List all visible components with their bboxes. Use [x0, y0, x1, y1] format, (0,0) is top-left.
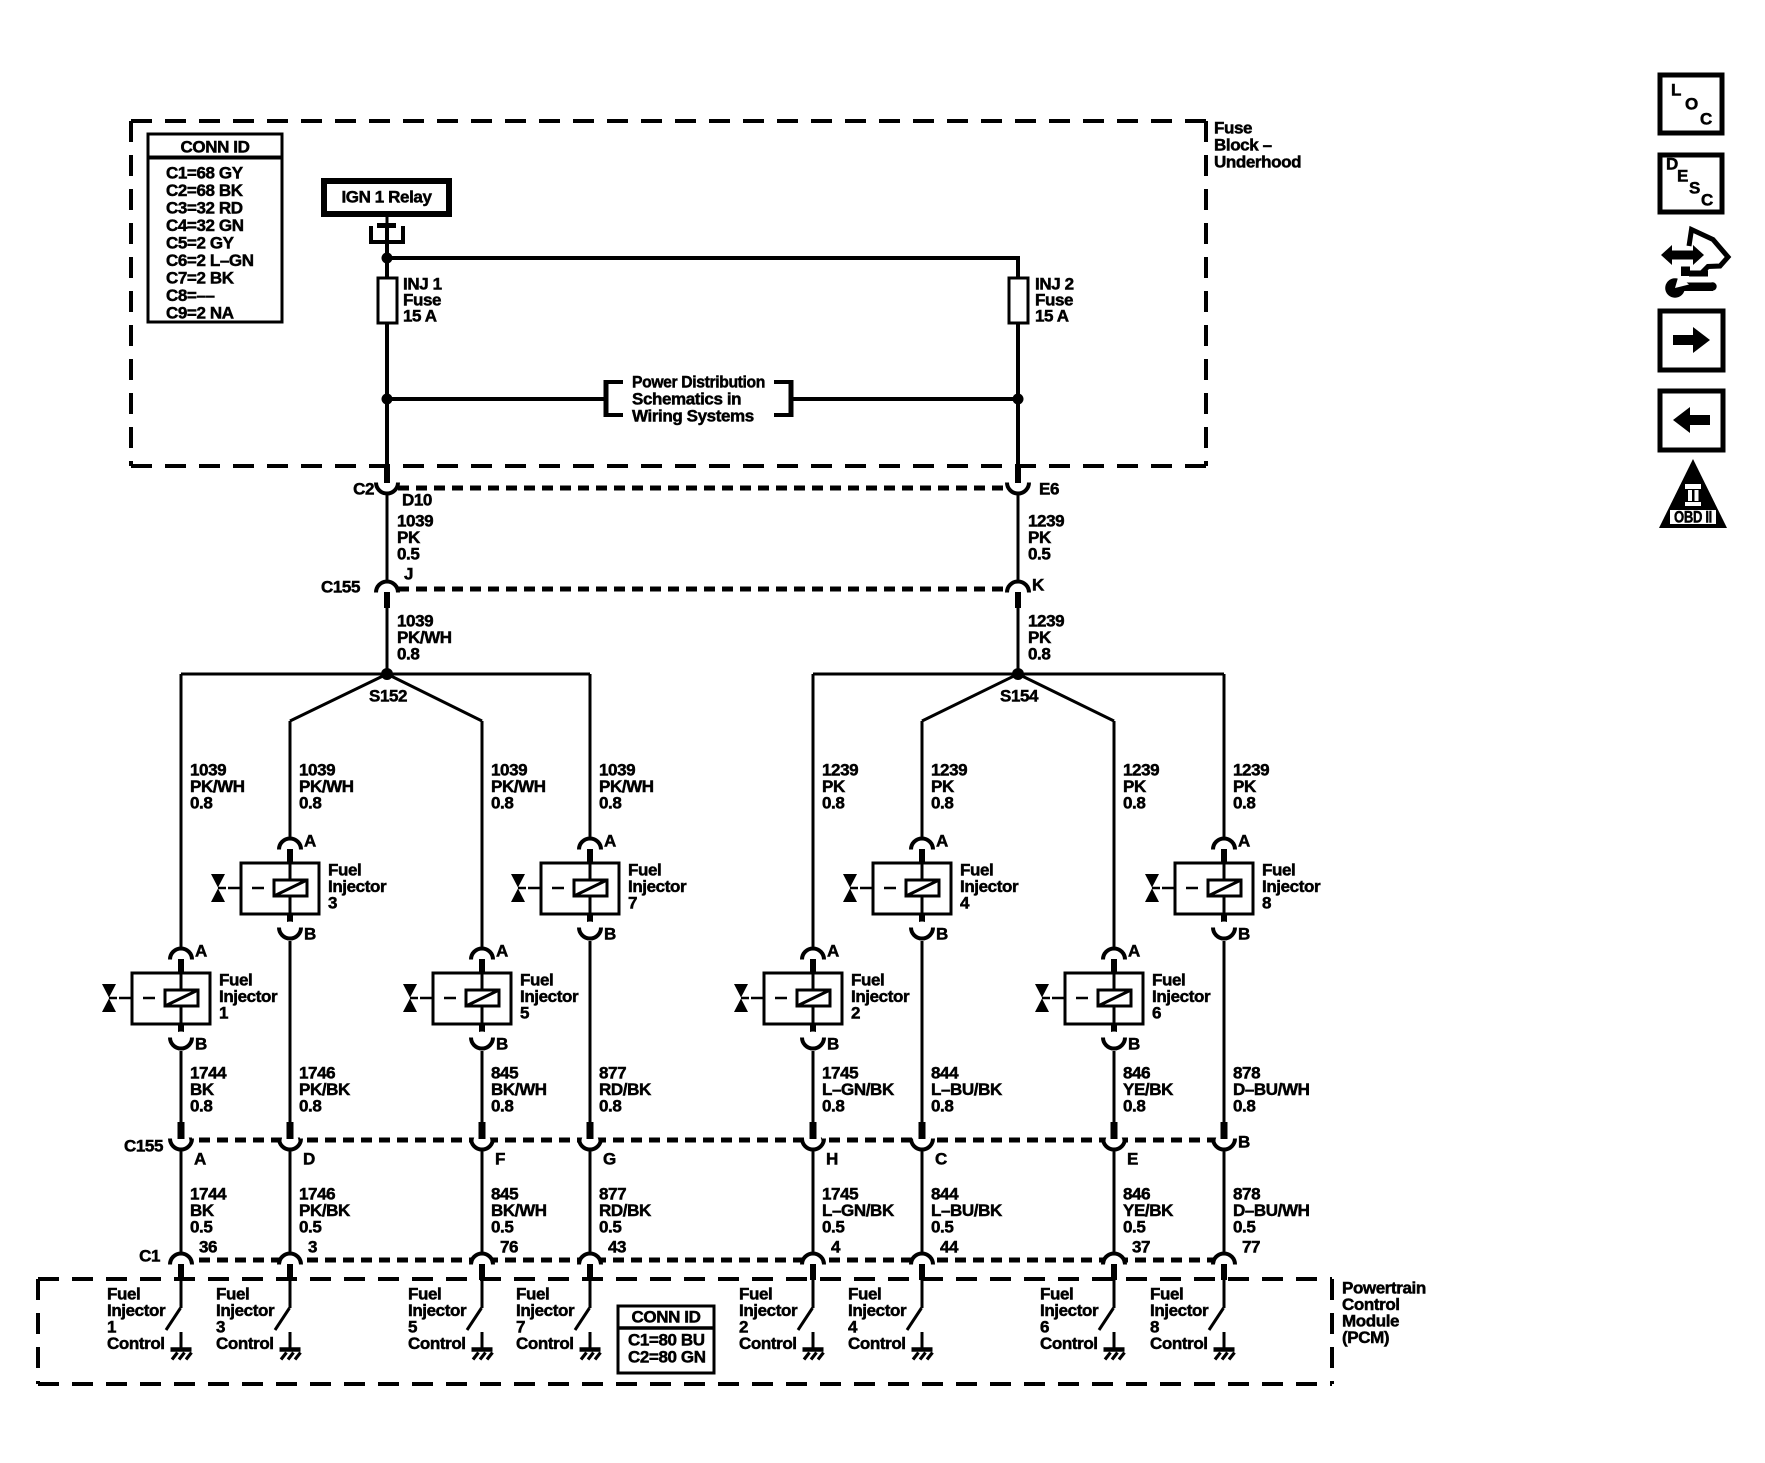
svg-text:0.5: 0.5	[397, 545, 419, 564]
junction dot left power distribution tap	[382, 394, 393, 405]
power distribution schematics reference	[606, 373, 791, 426]
fuel injector 8	[1145, 832, 1321, 944]
connector row C155 J / K dotted line	[398, 587, 1007, 592]
svg-text:B: B	[1238, 925, 1250, 944]
svg-text:CONN ID: CONN ID	[181, 138, 250, 157]
wire S154 branch to injector 4	[921, 721, 924, 838]
forward arrow icon box	[1660, 311, 1723, 370]
svg-text:E: E	[1677, 167, 1688, 186]
wire label 846 0.5	[1123, 1185, 1174, 1237]
svg-text:C155: C155	[124, 1137, 163, 1156]
wire label 1239 PK 0.5	[1028, 512, 1064, 564]
svg-text:B: B	[304, 925, 316, 944]
connector C155 pin F	[471, 1122, 505, 1169]
svg-text:F: F	[495, 1150, 505, 1169]
PCM label	[1342, 1279, 1426, 1348]
relay K1 IGN 1 Relay	[324, 181, 449, 214]
wire label 1239 PK 0.8	[1028, 612, 1064, 664]
fuel injector 7	[511, 832, 687, 944]
relay pin terminal symbol	[369, 216, 405, 242]
wire label 1239 PK 0.8	[822, 761, 858, 813]
svg-text:0.5: 0.5	[822, 1218, 844, 1237]
svg-text:Control: Control	[408, 1334, 466, 1353]
svg-text:S152: S152	[369, 687, 407, 706]
svg-text:0.8: 0.8	[299, 794, 321, 813]
svg-text:B: B	[1238, 1133, 1250, 1152]
svg-text:0.8: 0.8	[1123, 794, 1145, 813]
wire label 878 0.5	[1233, 1185, 1310, 1237]
svg-text:C1=68 GY: C1=68 GY	[166, 164, 244, 183]
svg-text:Control: Control	[739, 1334, 797, 1353]
wire S152 branch to injector 1	[180, 674, 183, 948]
svg-text:A: A	[1238, 832, 1250, 851]
connector C155 pin D	[279, 1122, 315, 1169]
back arrow icon box	[1660, 391, 1723, 450]
svg-text:0.8: 0.8	[397, 645, 419, 664]
connector C155 pin K	[1007, 576, 1045, 609]
svg-text:Wiring Systems: Wiring Systems	[632, 407, 754, 426]
wire label 1039 PK/WH 0.8	[599, 761, 654, 813]
wire C155 G to C1	[589, 1151, 592, 1252]
svg-text:Control: Control	[516, 1334, 574, 1353]
svg-text:A: A	[827, 942, 839, 961]
svg-text:Control: Control	[107, 1334, 165, 1353]
wire injector 8 to C155	[1223, 941, 1226, 1124]
svg-text:D: D	[303, 1150, 315, 1169]
svg-text:A: A	[496, 942, 508, 961]
CONN ID table (fuse block)	[148, 134, 282, 323]
PCM driver fuel injector 2 control	[739, 1280, 824, 1360]
wire S152 branch to injector 7	[589, 674, 592, 838]
svg-text:0.8: 0.8	[491, 1097, 513, 1116]
PCM driver fuel injector 3 control	[216, 1280, 301, 1360]
wire from power distribution bracket right	[791, 397, 1018, 401]
svg-text:Control: Control	[1040, 1334, 1098, 1353]
connector C1 pin 4	[802, 1238, 841, 1281]
wire injector 3 to C155	[289, 941, 292, 1124]
connector C2	[353, 468, 398, 499]
wire S152 branch to injector 3	[289, 721, 292, 838]
svg-text:43: 43	[608, 1238, 626, 1257]
PCM driver fuel injector 8 control	[1150, 1280, 1235, 1360]
svg-text:0.5: 0.5	[1233, 1218, 1255, 1237]
wire label 877 0.5	[599, 1185, 652, 1237]
svg-text:1: 1	[219, 1004, 228, 1023]
LOC icon box	[1660, 75, 1722, 133]
connector C1 pin 37	[1103, 1238, 1150, 1281]
wire label 1744 0.8	[190, 1064, 227, 1116]
OBD II icon triangle	[1659, 459, 1727, 528]
svg-text:44: 44	[940, 1238, 959, 1257]
fuse block label	[1214, 119, 1301, 172]
svg-text:3: 3	[308, 1238, 317, 1257]
wire S154 branch to injector 2	[812, 674, 815, 948]
wire C155 C to C1	[921, 1151, 924, 1252]
svg-text:B: B	[195, 1035, 207, 1054]
svg-text:D10: D10	[402, 491, 432, 510]
wire C155 F to C1	[481, 1151, 484, 1252]
svg-text:C5=2 GY: C5=2 GY	[166, 234, 235, 253]
svg-text:C6=2 L–GN: C6=2 L–GN	[166, 251, 254, 270]
svg-text:C1: C1	[139, 1247, 160, 1266]
svg-text:36: 36	[199, 1238, 217, 1257]
wire to power distribution bracket left	[387, 397, 606, 401]
svg-text:Underhood: Underhood	[1214, 153, 1301, 172]
svg-text:E6: E6	[1039, 480, 1059, 499]
svg-text:S: S	[1689, 179, 1700, 198]
svg-text:E: E	[1127, 1150, 1138, 1169]
wire S154 branch to injector 6	[1113, 721, 1116, 948]
wire INJ1 fuse top lead	[385, 258, 389, 278]
svg-text:4: 4	[831, 1238, 841, 1257]
wire label 1744 0.5	[190, 1185, 227, 1237]
svg-text:C: C	[1700, 110, 1712, 129]
svg-text:H: H	[826, 1150, 838, 1169]
wire label 877 0.8	[599, 1064, 652, 1116]
PCM driver fuel injector 5 control	[408, 1280, 493, 1360]
svg-text:0.5: 0.5	[491, 1218, 513, 1237]
wire S152 branch to injector 5	[481, 721, 484, 948]
connector row C155 dotted line	[181, 1138, 1224, 1143]
wire INJ2 fuse top lead	[1016, 256, 1020, 278]
svg-text:0.8: 0.8	[822, 794, 844, 813]
CONN ID table (PCM)	[618, 1306, 714, 1373]
junction dot right power distribution tap	[1013, 394, 1024, 405]
svg-text:B: B	[936, 925, 948, 944]
wire injector 1 to C155	[180, 1051, 183, 1124]
wire INJ1 fuse to C2	[385, 323, 389, 478]
wire C155 H to C1	[812, 1151, 815, 1252]
svg-text:B: B	[1128, 1035, 1140, 1054]
svg-text:O: O	[1685, 95, 1698, 114]
PCM driver fuel injector 4 control	[848, 1280, 933, 1360]
wire C155 A to C1	[180, 1151, 183, 1252]
PCM driver fuel injector 1 control	[107, 1280, 192, 1360]
svg-text:K: K	[1032, 576, 1045, 595]
fuel injector 2	[734, 942, 910, 1054]
splice S154	[813, 668, 1224, 721]
connector row C1 dotted line	[181, 1258, 1224, 1263]
wire label 1239 PK 0.8	[1233, 761, 1269, 813]
svg-text:0.8: 0.8	[1028, 645, 1050, 664]
fuel injector 4	[843, 832, 1019, 944]
svg-text:0.8: 0.8	[599, 794, 621, 813]
svg-text:C4=32 GN: C4=32 GN	[166, 216, 244, 235]
svg-text:B: B	[604, 925, 616, 944]
wire S154 branch to injector 8	[1223, 674, 1226, 838]
wire injector 5 to C155	[481, 1051, 484, 1124]
svg-text:0.8: 0.8	[599, 1097, 621, 1116]
svg-text:0.8: 0.8	[1123, 1097, 1145, 1116]
service cross-reference icon (double arrow and wrench)	[1661, 230, 1728, 298]
PCM driver fuel injector 6 control	[1040, 1280, 1125, 1360]
svg-text:IGN 1 Relay: IGN 1 Relay	[341, 188, 432, 207]
svg-text:Control: Control	[216, 1334, 274, 1353]
wire label 1039 PK/WH 0.8	[190, 761, 245, 813]
svg-text:OBD II: OBD II	[1674, 508, 1712, 527]
wire label 1746 0.5	[299, 1185, 351, 1237]
fuse F1 INJ 1 15A	[378, 275, 442, 326]
connector C155 pin E	[1103, 1122, 1138, 1169]
svg-text:C2: C2	[353, 480, 374, 499]
svg-text:A: A	[936, 832, 948, 851]
svg-text:C3=32 RD: C3=32 RD	[166, 199, 243, 218]
wire E6 to K circuit 1239	[1017, 495, 1020, 580]
svg-text:C9=2 NA: C9=2 NA	[166, 304, 234, 323]
svg-text:L: L	[1671, 81, 1681, 100]
wire label 846 0.8	[1123, 1064, 1174, 1116]
connector C1 pin 76	[471, 1238, 518, 1281]
svg-text:0.5: 0.5	[190, 1218, 212, 1237]
svg-text:A: A	[604, 832, 616, 851]
svg-text:37: 37	[1132, 1238, 1150, 1257]
svg-text:8: 8	[1262, 894, 1271, 913]
svg-text:0.5: 0.5	[599, 1218, 621, 1237]
svg-text:Control: Control	[848, 1334, 906, 1353]
wire label 1039 PK 0.5	[397, 512, 433, 564]
svg-text:77: 77	[1242, 1238, 1260, 1257]
wire J to S152 circuit 1039	[386, 608, 389, 674]
svg-text:B: B	[827, 1035, 839, 1054]
wire horizontal feed to INJ 2 fuse	[387, 256, 1018, 260]
fuel injector 1	[102, 942, 278, 1054]
wire C155 D to C1	[289, 1151, 292, 1252]
wire label 878 0.8	[1233, 1064, 1310, 1116]
wire label 1239 PK 0.8	[931, 761, 967, 813]
svg-text:15 A: 15 A	[403, 307, 437, 326]
svg-text:C2=68 BK: C2=68 BK	[166, 181, 244, 200]
wire INJ2 fuse to E6	[1016, 323, 1020, 478]
svg-text:0.8: 0.8	[299, 1097, 321, 1116]
wire relay to junction	[385, 228, 389, 262]
wire K to S154 circuit 1239	[1017, 608, 1020, 674]
connector C1 pin 77	[1213, 1238, 1260, 1281]
fuel injector 5	[403, 942, 579, 1054]
svg-text:0.5: 0.5	[1123, 1218, 1145, 1237]
connector C1 pin 3	[279, 1238, 317, 1281]
svg-text:15 A: 15 A	[1035, 307, 1069, 326]
svg-text:A: A	[194, 1150, 206, 1169]
wire label 1745 0.5	[822, 1185, 895, 1237]
svg-text:76: 76	[500, 1238, 518, 1257]
DESC icon box	[1660, 155, 1722, 213]
fuse F2 INJ 2 15A	[1009, 275, 1074, 326]
wire label 1239 PK 0.8	[1123, 761, 1159, 813]
svg-text:0.8: 0.8	[822, 1097, 844, 1116]
svg-text:0.8: 0.8	[1233, 794, 1255, 813]
wire label 844 0.5	[931, 1185, 1003, 1237]
svg-text:4: 4	[960, 894, 970, 913]
svg-text:5: 5	[520, 1004, 529, 1023]
connector C155 pin C	[911, 1122, 947, 1169]
connector E6	[1007, 468, 1059, 499]
wire injector 6 to C155	[1113, 1051, 1116, 1124]
svg-text:7: 7	[628, 894, 637, 913]
svg-text:3: 3	[328, 894, 337, 913]
wire label 844 0.8	[931, 1064, 1003, 1116]
svg-text:6: 6	[1152, 1004, 1161, 1023]
connector C155 pin G	[579, 1122, 616, 1169]
splice S152	[181, 668, 590, 721]
svg-text:C2=80 GN: C2=80 GN	[628, 1348, 706, 1367]
svg-text:C8=––: C8=––	[166, 286, 215, 305]
svg-text:J: J	[404, 565, 413, 584]
svg-text:0.8: 0.8	[931, 1097, 953, 1116]
svg-text:C: C	[935, 1150, 947, 1169]
connector C1 pin 43	[579, 1238, 626, 1281]
powertrain control module dashed enclosure	[38, 1279, 1332, 1384]
connector C155 pin B	[1213, 1122, 1250, 1152]
svg-text:S154: S154	[1000, 687, 1039, 706]
wire label 1039 PK/WH 0.8	[299, 761, 354, 813]
wire label 1039 PK/WH 0.8	[491, 761, 546, 813]
connector C155 pin J	[321, 565, 413, 609]
fuel injector 3	[211, 832, 387, 944]
wire injector 7 to C155	[589, 941, 592, 1124]
svg-text:A: A	[304, 832, 316, 851]
svg-text:CONN ID: CONN ID	[632, 1308, 701, 1327]
wire label 845 0.5	[491, 1185, 547, 1237]
svg-text:0.8: 0.8	[1233, 1097, 1255, 1116]
wire label 1746 0.8	[299, 1064, 351, 1116]
svg-text:B: B	[496, 1035, 508, 1054]
wire label 1745 0.8	[822, 1064, 895, 1116]
wire C155 E to C1	[1113, 1151, 1116, 1252]
svg-text:0.8: 0.8	[190, 794, 212, 813]
wire injector 4 to C155	[921, 941, 924, 1124]
connector C1 pin 44	[911, 1238, 959, 1281]
svg-text:C: C	[1701, 191, 1713, 210]
wire C155 B to C1	[1223, 1151, 1226, 1252]
wire label 1039 PK/WH 0.8	[397, 612, 452, 664]
svg-text:C7=2 BK: C7=2 BK	[166, 269, 235, 288]
connector C155 pin A	[170, 1122, 206, 1169]
connector C1 pin 36	[170, 1238, 217, 1281]
svg-text:0.5: 0.5	[299, 1218, 321, 1237]
svg-text:G: G	[603, 1150, 616, 1169]
svg-text:A: A	[195, 942, 207, 961]
svg-text:0.5: 0.5	[931, 1218, 953, 1237]
junction dot at IGN feed	[382, 253, 393, 264]
svg-text:2: 2	[851, 1004, 860, 1023]
svg-text:0.8: 0.8	[491, 794, 513, 813]
connector row C2 / E6 dotted line	[398, 486, 1007, 491]
svg-text:0.5: 0.5	[1028, 545, 1050, 564]
svg-text:Control: Control	[1150, 1334, 1208, 1353]
PCM driver fuel injector 7 control	[516, 1280, 601, 1360]
svg-text:C155: C155	[321, 578, 360, 597]
svg-text:0.8: 0.8	[190, 1097, 212, 1116]
fuel injector 6	[1035, 942, 1211, 1054]
connector C155 pin H	[802, 1122, 838, 1169]
wire injector 2 to C155	[812, 1051, 815, 1124]
svg-text:A: A	[1128, 942, 1140, 961]
wire C2 to C155 circuit 1039	[386, 495, 389, 580]
svg-text:(PCM): (PCM)	[1342, 1328, 1389, 1347]
wire label 845 0.8	[491, 1064, 547, 1116]
svg-text:0.8: 0.8	[931, 794, 953, 813]
fuse block underhood dashed enclosure	[131, 121, 1206, 466]
